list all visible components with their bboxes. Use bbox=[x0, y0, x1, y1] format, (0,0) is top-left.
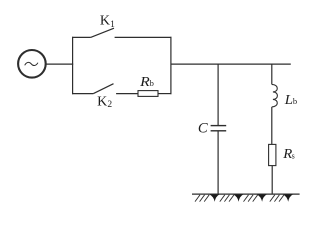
svg-text:C: C bbox=[198, 120, 209, 136]
ground line bbox=[192, 193, 300, 195]
svg-text:b: b bbox=[150, 78, 154, 88]
resistor Rs bbox=[269, 144, 276, 165]
switch K1 bbox=[72, 28, 172, 37]
svg-text:K: K bbox=[97, 94, 107, 109]
svg-text:1: 1 bbox=[110, 20, 115, 30]
wire right vertical bbox=[170, 37, 172, 94]
switch K2 bbox=[72, 84, 138, 94]
svg-text:R: R bbox=[139, 75, 150, 90]
svg-text:K: K bbox=[100, 14, 110, 29]
ground hatching bbox=[195, 195, 284, 202]
svg-text:2: 2 bbox=[107, 100, 112, 110]
svg-text:s: s bbox=[292, 151, 295, 160]
wire left vertical bbox=[72, 37, 74, 94]
wire source to left node bbox=[46, 63, 73, 65]
capacitor C bbox=[211, 64, 227, 194]
inductor Lb bbox=[272, 64, 278, 144]
resistor Rb bbox=[138, 91, 158, 97]
svg-text:L: L bbox=[284, 93, 293, 108]
output rail bbox=[171, 63, 291, 65]
svg-text:b: b bbox=[293, 96, 297, 106]
wire Rb to right vertical bbox=[158, 93, 172, 95]
wire Rs to ground bbox=[271, 166, 273, 195]
ground triangles bbox=[210, 195, 293, 202]
AC source bbox=[18, 50, 46, 78]
